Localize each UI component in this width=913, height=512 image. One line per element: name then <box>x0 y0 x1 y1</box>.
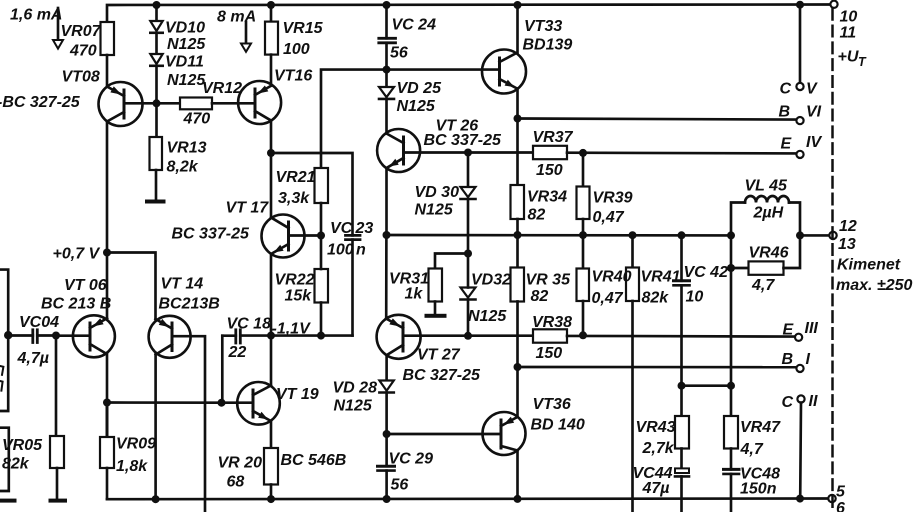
resistor VR12 470 <box>157 98 256 110</box>
transistor VT19 BC546B (NPN) <box>222 382 280 425</box>
svg-text:V: V <box>806 81 818 98</box>
capacitor VC29 56 <box>378 434 395 499</box>
wire: E-IV line (VT26 base, VR37 row) <box>404 151 534 154</box>
diode VD32 N125 <box>461 254 476 336</box>
node: rail junction VT33 collector <box>514 1 522 9</box>
node: VT19 base / VC18 branch / feedback line junction <box>218 399 226 407</box>
svg-text:max. ±250 m: max. ±250 m <box>836 277 913 294</box>
node: bottom rail VT36 collector <box>514 495 522 503</box>
svg-text:VT 14: VT 14 <box>161 276 204 293</box>
resistor VR09 1,8k <box>100 403 114 500</box>
wire: VT16 collector node line to VC23 <box>271 153 353 235</box>
svg-text:VR15: VR15 <box>283 20 324 37</box>
wire: VT36 collector down to bottom rail <box>516 451 519 500</box>
svg-text:VD 30: VD 30 <box>415 184 460 201</box>
svg-text:VD 25: VD 25 <box>397 80 443 97</box>
svg-text:2µH: 2µH <box>753 205 784 222</box>
wire: connector between VR43 and VR47 tops <box>682 384 732 387</box>
wire: left edge input wiring upper <box>0 270 8 336</box>
wire: VR31 branch <box>435 254 468 269</box>
node: rail junction VC24 <box>383 1 391 9</box>
svg-text:68: 68 <box>227 474 245 491</box>
svg-text:+0,7 V: +0,7 V <box>53 246 101 263</box>
svg-text:VT 17: VT 17 <box>226 200 270 217</box>
svg-text:+U: +U <box>838 49 859 66</box>
svg-text:N125: N125 <box>397 98 436 115</box>
transistor VT26 BC337-25 (NPN) <box>377 129 420 172</box>
wire: output node to terminal 12/13 <box>800 234 829 237</box>
svg-text:VR05: VR05 <box>2 437 43 454</box>
resistor VR39 0,47 <box>577 153 590 235</box>
dashed connector boundary line <box>831 9 834 512</box>
svg-text:150: 150 <box>536 162 563 179</box>
svg-text:470: 470 <box>69 43 97 60</box>
svg-text:VC: VC <box>330 220 353 237</box>
capacitor VC23 100n <box>346 235 361 335</box>
ground bar below VR05 <box>49 499 68 503</box>
svg-text:VC 42: VC 42 <box>684 264 729 281</box>
node: VT08 base / VD11 / VR12 / VR13 junction <box>153 99 161 107</box>
wire: +0,7V line <box>107 253 156 320</box>
wire: VT06 emitter up to +0,7V node <box>106 253 109 319</box>
node: VR43/VR47 top connector right <box>727 382 735 390</box>
svg-text:VR34: VR34 <box>527 189 567 206</box>
wire: C-II line down to bottom rail <box>799 403 802 499</box>
svg-text:470: 470 <box>183 111 211 128</box>
svg-text:BC213B: BC213B <box>159 296 220 313</box>
svg-text:n: n <box>356 242 366 259</box>
svg-text:VR09: VR09 <box>116 436 156 453</box>
svg-text:3,3k: 3,3k <box>278 190 310 207</box>
text fragment cropped at left edge (lower) <box>0 381 3 391</box>
svg-text:VR43: VR43 <box>636 419 676 436</box>
node: mid rail VR41 junction <box>629 231 637 239</box>
node: VT16 collector / VT17 collector junction <box>267 149 275 157</box>
capacitor VC44 47u (electrolytic) <box>675 468 689 512</box>
resistor VR35 82 <box>511 235 525 367</box>
transistor VT06 BC213B (PNP) <box>56 315 115 357</box>
svg-text:VT33: VT33 <box>524 18 562 35</box>
wire: VT36 base line <box>387 433 501 436</box>
node: VT17 emitter / VT19 collector junction <box>267 332 275 340</box>
node: mid rail VL45 left junction <box>727 231 735 239</box>
svg-text:VR22: VR22 <box>275 272 315 289</box>
capacitor VC18 22 <box>222 330 240 343</box>
svg-text:VR41: VR41 <box>641 269 681 286</box>
terminal C/II <box>797 395 804 402</box>
resistor VR46 4,7 <box>727 235 800 274</box>
svg-text:150: 150 <box>536 345 563 362</box>
wire: VC18 branch down to VT19 base node <box>221 336 224 403</box>
text fragment cropped at left edge (upper) <box>0 366 3 375</box>
node: +0,7V junction <box>103 249 111 257</box>
wire: VT26 emitter down to mid rail <box>385 168 388 235</box>
svg-text:VT16: VT16 <box>274 68 312 85</box>
svg-text:VD32: VD32 <box>471 272 511 289</box>
svg-text:VC 18: VC 18 <box>227 316 272 333</box>
svg-text:VT36: VT36 <box>533 396 571 413</box>
svg-text:N125: N125 <box>334 398 373 415</box>
svg-text:B: B <box>779 104 791 121</box>
diode VD10 N125 <box>150 5 162 54</box>
svg-text:1,6 mA: 1,6 mA <box>10 7 62 24</box>
svg-text:B: B <box>782 351 794 368</box>
svg-text:II: II <box>809 393 818 410</box>
node: mid rail VR39/VR40 junction <box>579 231 587 239</box>
wire: B-I line <box>518 366 797 369</box>
svg-text:100: 100 <box>327 242 354 259</box>
svg-text:12: 12 <box>839 218 857 235</box>
svg-text:VR12: VR12 <box>202 80 242 97</box>
terminal B/VI <box>796 117 803 124</box>
node: rail junction VD10 <box>153 1 161 9</box>
svg-text:BC 337-25: BC 337-25 <box>172 226 250 243</box>
transistor VT08 BC327-25 (PNP) <box>99 82 157 126</box>
diode VD30 N125 <box>461 153 476 254</box>
wire: left edge lower corner to ground <box>0 428 9 491</box>
node: bottom rail VC29 <box>383 495 391 503</box>
svg-text:BC 546B: BC 546B <box>281 452 347 469</box>
svg-text:VR47: VR47 <box>740 419 781 436</box>
svg-text:VR40: VR40 <box>592 269 632 286</box>
svg-text:11: 11 <box>840 25 857 42</box>
wire: VT14 collector down to bottom rail <box>154 355 157 500</box>
svg-text:VR 35: VR 35 <box>526 272 572 289</box>
svg-text:82: 82 <box>528 207 546 224</box>
svg-text:E: E <box>781 136 793 153</box>
svg-text:23: 23 <box>355 220 374 237</box>
wire: VR07 bottom to VT08 emitter <box>106 55 109 87</box>
svg-text:BC 327-25: BC 327-25 <box>403 367 481 384</box>
node: input node left edge <box>4 331 12 339</box>
svg-text:N125: N125 <box>415 202 454 219</box>
svg-text:100: 100 <box>283 41 310 58</box>
node: bottom rail VT14 collector <box>152 495 160 503</box>
svg-text:VT08: VT08 <box>62 69 100 86</box>
wire: E-III line (VT27 base, VR38 row) <box>403 334 533 337</box>
node: VD30 top junction on E-IV line <box>464 149 472 157</box>
svg-text:8 mA: 8 mA <box>217 9 256 26</box>
wire: VT16 collector down to junction <box>270 121 273 154</box>
node: VD30 / VD32 / VR31 junction <box>464 250 472 258</box>
svg-text:E: E <box>783 322 795 339</box>
inductor VL45 2uH <box>731 196 800 235</box>
svg-text:0,47: 0,47 <box>593 209 625 226</box>
terminal E/IV <box>796 151 803 158</box>
wire: VT27 emitter up to mid rail <box>385 235 388 319</box>
node: VR40 bottom on E-III line <box>579 331 587 339</box>
svg-text:N125: N125 <box>468 308 507 325</box>
diode VD25 N125 <box>379 70 394 134</box>
svg-text:BC 213 B: BC 213 B <box>41 296 111 313</box>
svg-text:VR 20: VR 20 <box>218 455 263 472</box>
wire: VT19 collector up to -1,1V node <box>270 336 273 386</box>
node: bottom rail C-II line <box>796 495 804 503</box>
svg-text:VI: VI <box>806 104 822 121</box>
wire: -1,1V node line (VC18 right to VC23 corner) <box>240 334 352 337</box>
svg-text:10: 10 <box>686 289 704 306</box>
node: VC04 / VR05 / VT06 base junction <box>52 332 60 340</box>
terminal E/III <box>795 334 802 341</box>
wire: VR37 right to terminal E/IV <box>567 151 796 154</box>
svg-text:VR46: VR46 <box>749 245 789 262</box>
resistor VR37 150 <box>533 146 567 159</box>
wire: VR31 bottom lead <box>434 302 437 314</box>
resistor VR41 82k <box>626 235 639 512</box>
svg-text:82k: 82k <box>2 456 30 473</box>
mid rail line y=235 <box>387 234 732 237</box>
current arrow 8 mA <box>241 22 251 52</box>
svg-text:IV: IV <box>806 134 822 151</box>
svg-text:VR38: VR38 <box>532 314 572 331</box>
wire: left edge input wiring lower <box>0 335 8 411</box>
node: VL45/VR46 right junction <box>796 231 804 239</box>
svg-text:82k: 82k <box>642 290 670 307</box>
transistor VT17 BC337-25 (NPN) <box>262 215 322 258</box>
ground bar below VR31 <box>425 314 447 318</box>
wire: VT33 emitter down to B/VI node <box>516 89 519 119</box>
resistor VR22 15k <box>315 236 329 336</box>
wire: VR38 right to terminal E/III <box>567 335 795 338</box>
resistor VR31 1k <box>429 269 443 302</box>
svg-text:VD11: VD11 <box>165 54 204 71</box>
svg-text:56: 56 <box>391 477 409 494</box>
svg-text:C: C <box>780 81 792 98</box>
svg-text:VR13: VR13 <box>167 140 207 157</box>
svg-text:VC 24: VC 24 <box>392 17 437 34</box>
resistor VR20 68 <box>264 421 278 499</box>
terminal 10/11 top right <box>830 1 837 8</box>
svg-text:4,7: 4,7 <box>740 441 764 458</box>
transistor VT14 BC213B (PNP) <box>149 316 191 358</box>
svg-text:82: 82 <box>531 288 549 305</box>
node: mid rail VR34/VR35 junction <box>514 231 522 239</box>
node: VD28 / VC29 / VT36 base junction <box>383 430 391 438</box>
svg-text:N125: N125 <box>167 72 206 89</box>
wire: B-VI line <box>518 119 797 120</box>
svg-text:4,7: 4,7 <box>751 277 775 294</box>
svg-text:0,47: 0,47 <box>592 290 624 307</box>
svg-text:I: I <box>806 351 811 368</box>
svg-text:VD10: VD10 <box>165 20 205 37</box>
resistor VR38 150 <box>533 329 567 342</box>
svg-text:C: C <box>782 394 794 411</box>
svg-text:BC 337-25: BC 337-25 <box>424 132 502 149</box>
resistor VR05 82k <box>50 336 64 499</box>
wire: VT14 base corner line down off-frame <box>172 336 205 512</box>
node: VT06 collector / VR09 junction <box>103 399 111 407</box>
svg-text:VT 19: VT 19 <box>276 386 319 403</box>
terminal C/V <box>796 83 803 90</box>
svg-text:4,7µ: 4,7µ <box>17 350 49 367</box>
node: rail junction VR15 <box>267 1 275 9</box>
wire: VC24 node line left to VR21 column <box>321 70 500 168</box>
wire: VT33 collector to top rail <box>516 5 519 53</box>
node: VR43/VR47 top connector left <box>678 382 686 390</box>
transistor VT27 BC327-25 (PNP) <box>377 315 421 359</box>
svg-text:VT 06: VT 06 <box>64 277 107 294</box>
svg-text:15k: 15k <box>285 288 313 305</box>
svg-text:47µ: 47µ <box>642 480 670 497</box>
svg-text:5: 5 <box>836 484 846 501</box>
wire: VT17 emitter down to -1,1V line <box>270 254 273 336</box>
resistor VR47 4,7 <box>724 386 738 470</box>
node: VC24 / VD25 / VT33 base junction <box>383 66 391 74</box>
svg-text:III: III <box>805 320 819 337</box>
svg-text:VR07: VR07 <box>61 23 102 40</box>
terminal 12/13 Kimenet <box>829 232 836 239</box>
transistor VT16 (PNP) <box>238 81 281 124</box>
resistor VR21 3,3k <box>315 168 329 203</box>
svg-text:13: 13 <box>838 236 856 253</box>
resistor VR13 8,2k <box>150 103 163 199</box>
svg-text:BD139: BD139 <box>523 37 573 54</box>
current arrow 1,6 mA <box>53 8 63 49</box>
ground bar bottom-left edge <box>0 499 17 503</box>
diode VD28 N125 <box>379 355 393 434</box>
svg-text:VD 28: VD 28 <box>333 380 378 397</box>
svg-text:1k: 1k <box>405 286 424 303</box>
wire: VT08 collector down to +0,7V node <box>106 122 109 253</box>
svg-text:2,7k: 2,7k <box>642 440 675 457</box>
wire: VR21 bottom to VT17 base node <box>320 203 323 236</box>
svg-text:N125: N125 <box>167 36 206 53</box>
svg-text:150n: 150n <box>740 481 777 498</box>
svg-text:BD 140: BD 140 <box>531 417 585 434</box>
svg-text:VC 29: VC 29 <box>389 451 434 468</box>
wire: bottom rail <box>107 497 828 500</box>
wire: VR46 node down to VR47 <box>730 268 733 386</box>
capacitor VC48 150n <box>724 469 740 512</box>
node: VT33 emitter / VR34 / B-VI line junction <box>514 115 522 123</box>
terminal B/I <box>796 365 803 372</box>
svg-text:8,2k: 8,2k <box>167 159 199 176</box>
capacitor VC04 4,7u <box>8 330 56 343</box>
node: mid rail emitters junction <box>383 231 391 239</box>
node: VR21 / VR22 / VT17 base junction <box>317 232 325 240</box>
svg-text:VR21: VR21 <box>276 169 316 186</box>
node: bottom rail VR20 <box>267 495 275 503</box>
svg-text:VC04: VC04 <box>19 314 59 331</box>
resistor VR15 100 <box>265 5 278 86</box>
node: VR22 bottom junction <box>317 332 325 340</box>
ground bar below VR13 <box>145 200 166 204</box>
transistor VT36 BD140 (PNP) <box>483 412 526 455</box>
svg-text:T: T <box>858 55 867 69</box>
wire: VT36 emitter up to B-I node <box>516 367 519 417</box>
node: VR39 top junction on E-IV line <box>579 149 587 157</box>
svg-text:6: 6 <box>836 500 845 512</box>
wire: VT06 collector line to VT19 base <box>107 401 222 404</box>
svg-text:-BC 327-25: -BC 327-25 <box>0 94 81 111</box>
transistor VT33 BD139 (NPN) <box>482 50 526 94</box>
capacitor VC42 10 <box>674 235 690 385</box>
terminal 5/6 bottom right <box>828 495 835 502</box>
node: VD32 bottom on E-III line <box>464 332 472 340</box>
wire: C-V line from rail <box>799 5 802 83</box>
resistor VR07 470 <box>101 22 115 55</box>
svg-text:10: 10 <box>840 9 858 26</box>
capacitor VC24 56 <box>379 5 396 70</box>
resistor VR43 2,7k <box>675 386 689 469</box>
svg-text:VR39: VR39 <box>593 190 633 207</box>
svg-text:56: 56 <box>390 45 408 62</box>
diode VD11 N125 <box>150 54 162 103</box>
wire: +Ut top supply rail <box>107 5 831 23</box>
svg-text:Kimenet: Kimenet <box>837 257 901 274</box>
svg-text:VT 27: VT 27 <box>417 347 461 364</box>
node: VR35 bottom / VT36 emitter junction <box>514 363 522 371</box>
resistor VR40 0,47 <box>577 235 590 335</box>
wire: VT06 collector down to VT19 base line <box>106 354 109 403</box>
wire: VT17 collector up <box>270 153 273 218</box>
resistor VR34 82 <box>511 119 525 236</box>
svg-text:22: 22 <box>228 344 247 361</box>
node: mid rail VC42 junction <box>678 231 686 239</box>
node: rail junction terminal V line <box>796 1 804 9</box>
svg-text:-1,1V: -1,1V <box>272 321 312 338</box>
svg-text:VL 45: VL 45 <box>745 178 789 195</box>
svg-text:VR37: VR37 <box>533 129 574 146</box>
svg-text:1,8k: 1,8k <box>116 458 148 475</box>
